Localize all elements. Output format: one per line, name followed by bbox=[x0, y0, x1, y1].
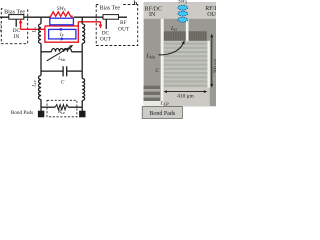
blue I_F circulating-current loop bbox=[49, 29, 76, 39]
svg-text:b: b bbox=[134, 0, 138, 7]
red DC feed wire from left bias tee bbox=[21, 28, 45, 30]
svg-text:IN: IN bbox=[14, 34, 20, 40]
svg-text:LG: LG bbox=[170, 26, 177, 32]
svg-text:LG: LG bbox=[32, 27, 37, 34]
panel b chip background (ground plane) bbox=[144, 2, 216, 106]
svg-text:LLP: LLP bbox=[32, 79, 37, 88]
inductor L_LP left (coil) bbox=[39, 76, 41, 100]
svg-text:RF: RF bbox=[120, 20, 127, 26]
resistor R_LP (zigzag) bbox=[55, 105, 68, 110]
wire: to left bond pad bbox=[40, 100, 42, 112]
wire: L_kin branch right lead bbox=[72, 51, 83, 53]
variable-inductor arrow across L_kin bbox=[47, 46, 71, 60]
switch SW_s micrograph: stack of 3 cyan ellipses bbox=[178, 5, 188, 10]
svg-text:LLP: LLP bbox=[160, 101, 169, 107]
main RF wire bbox=[0, 16, 127, 18]
wire: DC port stub left bbox=[15, 19, 17, 27]
wire: to right bond pad bbox=[81, 101, 83, 112]
wire: left branch from main wire bbox=[40, 17, 42, 24]
svg-text:Lkin: Lkin bbox=[146, 54, 155, 60]
svg-text:Lkin: Lkin bbox=[57, 57, 65, 62]
vertical dimension double arrow bbox=[211, 36, 213, 87]
svg-text:Bond Pads: Bond Pads bbox=[11, 110, 33, 116]
left column L_LP meander stripe texture bbox=[144, 86, 161, 102]
inductor L_G right (coil) bbox=[82, 24, 84, 44]
inductor L_kin (variable kinetic inductor coil) bbox=[52, 49, 72, 52]
cavity horizontal stripe texture bbox=[164, 43, 207, 87]
bottom light rail of chip bbox=[163, 88, 209, 107]
left Bias Tee label bbox=[3, 7, 27, 14]
inductor L_G left (coil) bbox=[39, 24, 41, 44]
Bond Pads label box bbox=[142, 107, 182, 119]
wire: capacitor branch right bbox=[67, 70, 82, 72]
red DC exit wire to right bias tee bbox=[78, 22, 100, 25]
I_F arrow (top edge, pointing left) bbox=[58, 28, 62, 31]
svg-text:410 μm: 410 μm bbox=[177, 94, 194, 100]
right Bias Tee dashed box bbox=[96, 5, 138, 46]
wire: left branch down bbox=[40, 44, 42, 76]
inductor L_LP right (coil) bbox=[82, 79, 84, 101]
right white slot (CPW gap) bbox=[207, 41, 210, 88]
wire: right branch down bbox=[81, 44, 83, 79]
white below chip left column bbox=[144, 101, 161, 106]
right bias tee inductor (box component) bbox=[103, 15, 119, 20]
red DC IN arrow bbox=[20, 23, 22, 29]
wire: capacitor branch left bbox=[41, 70, 63, 72]
svg-text:SWS: SWS bbox=[178, 0, 187, 5]
right Bias Tee label bbox=[98, 3, 121, 10]
bond pad right (black square) bbox=[79, 111, 85, 118]
central cavity meander (kinetic inductor region) bbox=[164, 41, 207, 88]
R_LP dashed box bbox=[47, 100, 77, 117]
svg-text:OUT: OUT bbox=[100, 36, 112, 42]
svg-text:Bias Tee: Bias Tee bbox=[99, 5, 120, 11]
wire: L_kin branch left lead bbox=[41, 51, 52, 53]
wire: R_LP right lead bbox=[68, 106, 82, 108]
svg-text:C: C bbox=[61, 79, 65, 85]
svg-text:IN: IN bbox=[0, 28, 2, 34]
bond pad left (black square) bbox=[38, 111, 44, 118]
svg-text:IF: IF bbox=[59, 33, 65, 38]
left bias tee inductor (box component) bbox=[9, 15, 24, 20]
svg-text:C: C bbox=[155, 68, 159, 74]
left Bias Tee dashed box bbox=[1, 9, 27, 44]
wire: DC port stub right bbox=[105, 19, 107, 29]
red DC current loop around SQUID bbox=[45, 22, 78, 42]
svg-text:IN: IN bbox=[149, 12, 156, 18]
410 um scale bar double arrow bbox=[165, 91, 205, 93]
curved pointer arrow from L_kin label to meander bbox=[159, 44, 184, 55]
capacitor C bbox=[63, 66, 67, 76]
left white slot (CPW gap) bbox=[161, 19, 164, 107]
meander band vertical stripe texture bbox=[165, 31, 205, 41]
dark meander band (L_G inductors) bbox=[164, 31, 207, 41]
wire: right branch from main wire bbox=[81, 17, 83, 24]
red DC OUT arrow bbox=[99, 25, 103, 29]
resistor R_S (normal-state resistance of switch, red zigzag) bbox=[50, 12, 72, 18]
gap slot between meander blocks bbox=[186, 19, 189, 41]
top light rail of chip bbox=[144, 2, 216, 19]
I_F arrow (bottom edge, pointing right) bbox=[61, 37, 65, 40]
svg-text:OUT: OUT bbox=[118, 27, 130, 33]
svg-text:500 μm: 500 μm bbox=[212, 59, 216, 74]
switch SW_S (superconducting wire, blue box) bbox=[50, 18, 74, 25]
svg-text:OUT: OUT bbox=[207, 12, 216, 18]
wire: R_LP left lead bbox=[41, 106, 55, 108]
svg-text:RLP: RLP bbox=[57, 110, 66, 115]
svg-text:Bond Pads: Bond Pads bbox=[149, 111, 176, 117]
